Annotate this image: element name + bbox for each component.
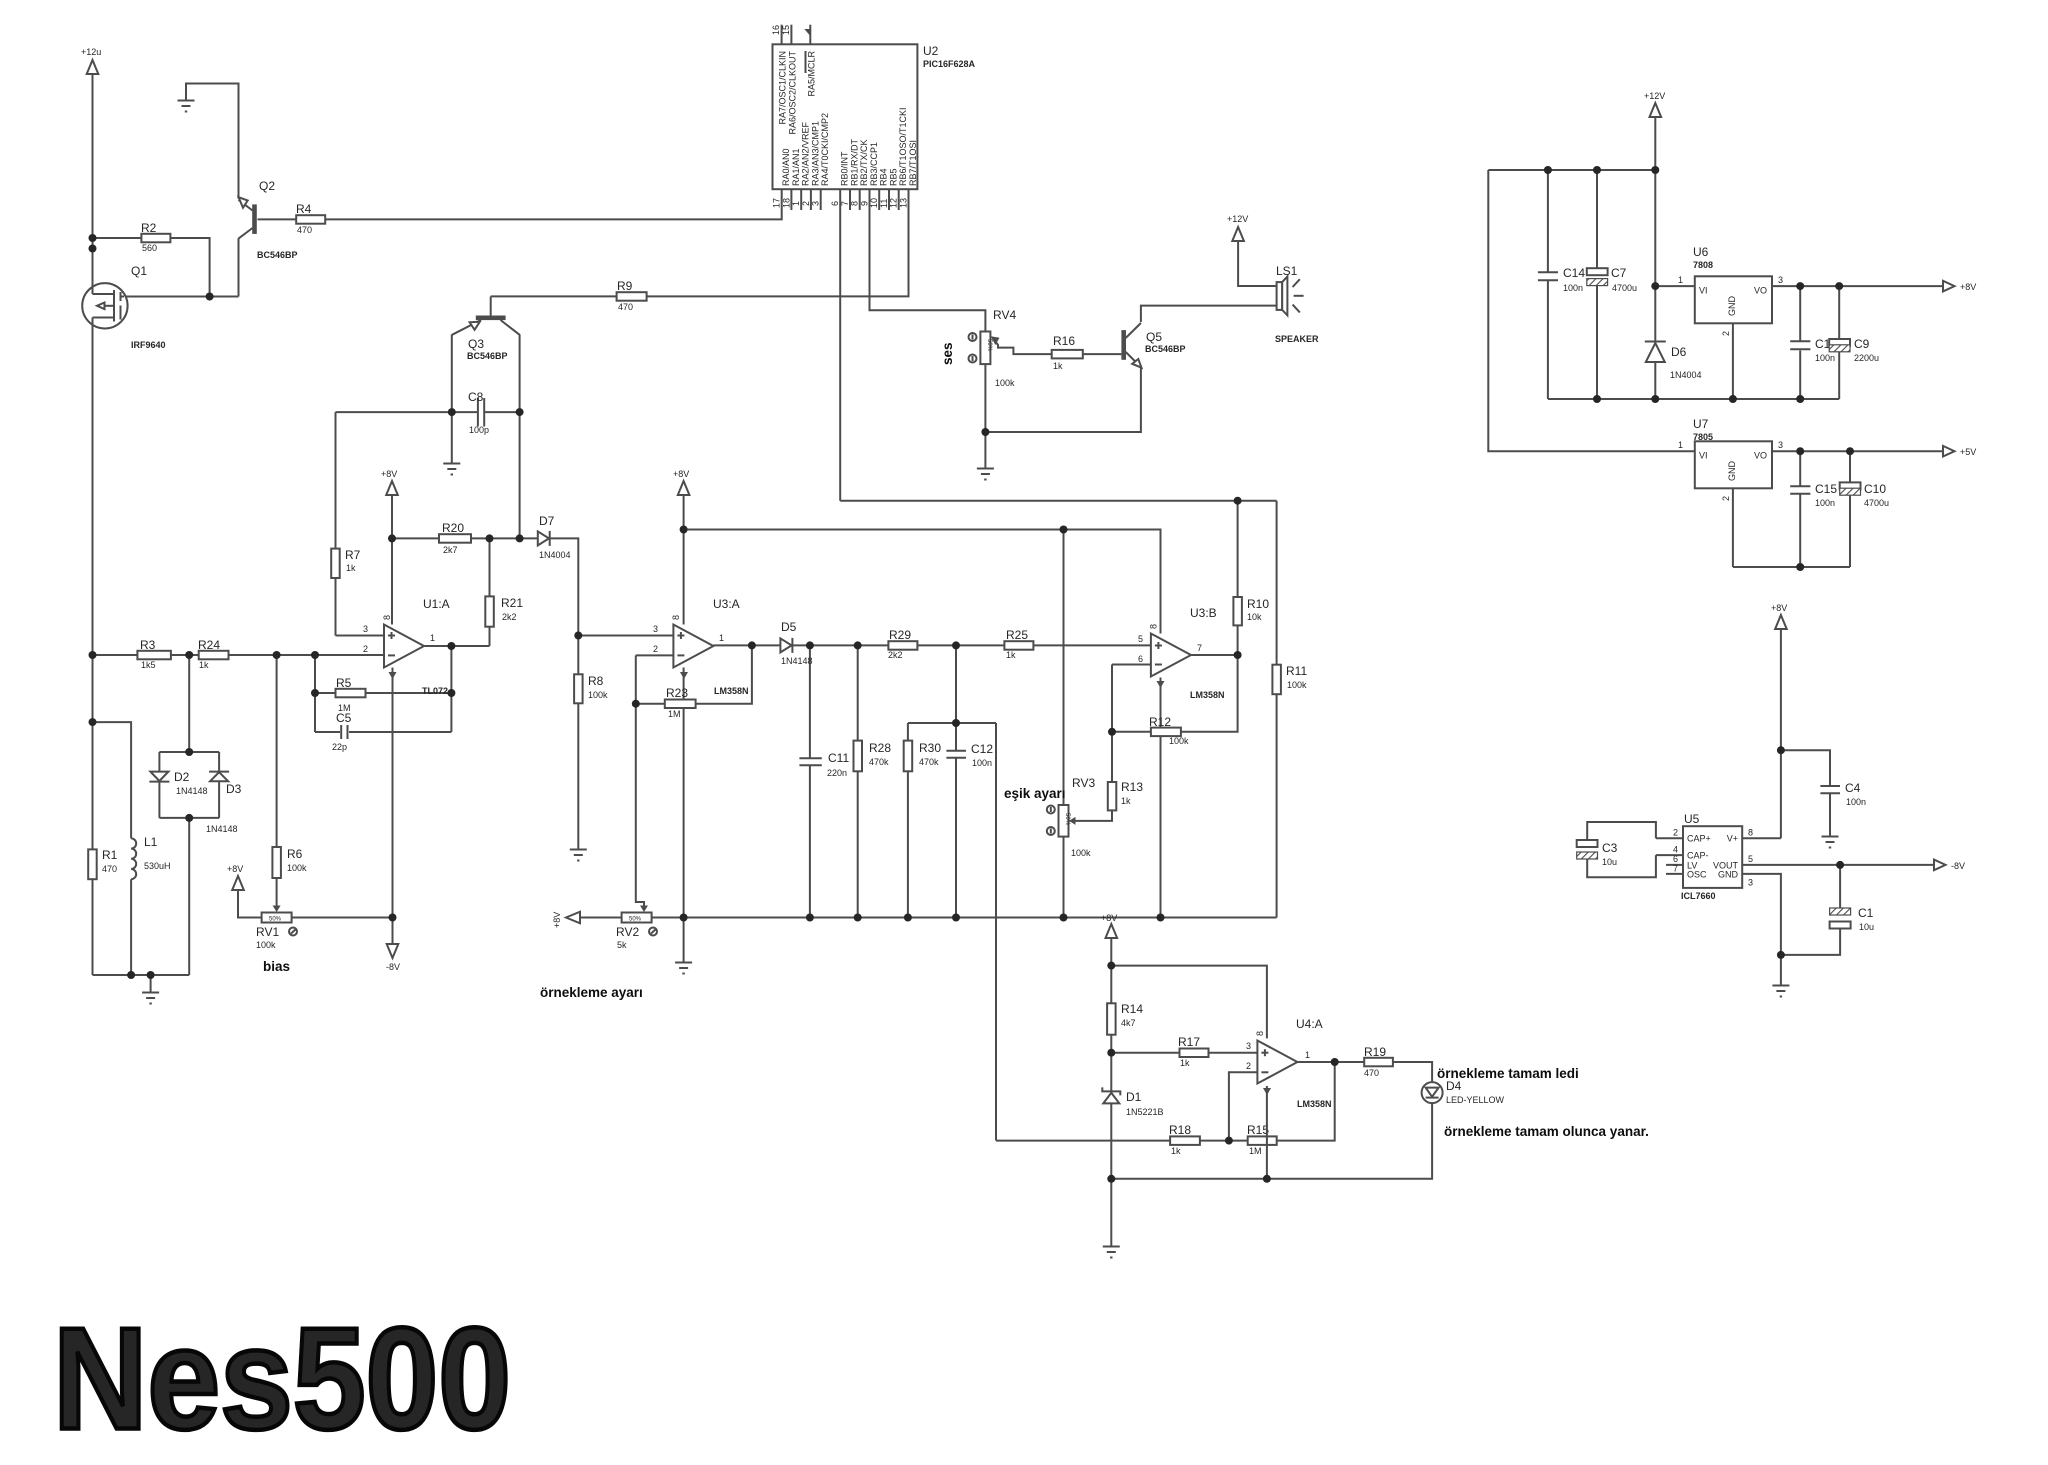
wire U7 pin3 output [1772,450,1943,452]
svg-text:RV1: RV1 [256,925,279,939]
resistor R11 100k [1272,665,1281,695]
transistor Q2 BC546BP [252,204,257,234]
svg-text:50%: 50% [629,917,642,923]
svg-text:R14: R14 [1121,1002,1143,1016]
svg-text:+8V: +8V [673,469,689,479]
wire D2 D3 loop bottom [159,817,219,819]
svg-text:örnekleme ayarı: örnekleme ayarı [540,985,643,1000]
pin 16 stub [781,25,783,45]
diode D6 1N4004 [1645,341,1666,343]
svg-text:2: 2 [1721,331,1731,336]
wire -8V drop [392,918,394,945]
wire C12 vertical [955,723,957,750]
regulator U6 7808 [1695,276,1772,323]
resistor R20 2k7 [439,534,471,543]
svg-text:100k: 100k [1169,736,1189,746]
svg-text:R2: R2 [141,221,157,235]
wire C1 vertical [1839,865,1841,908]
wire U7 pin2 [1732,488,1734,567]
svg-text:R28: R28 [869,741,891,755]
transistor Q5 BC546BP [1121,330,1126,360]
svg-text:R25: R25 [1006,628,1028,642]
svg-text:R13: R13 [1121,780,1143,794]
svg-text:1N4004: 1N4004 [1670,370,1702,380]
diode D2 1N4148 [150,772,168,781]
svg-text:D5: D5 [781,620,797,634]
wire R7 vertical [335,412,337,635]
svg-text:LS1: LS1 [1276,264,1298,278]
svg-text:2k2: 2k2 [888,650,903,660]
svg-text:U2: U2 [923,44,939,58]
svg-text:BC546BP: BC546BP [467,351,508,361]
wire +12V feed U6 [1654,117,1656,170]
wire C13 vertical [1799,286,1801,340]
svg-text:R29: R29 [889,628,911,642]
svg-text:7: 7 [1197,643,1202,653]
svg-text:D3: D3 [226,782,242,796]
svg-text:470: 470 [618,302,633,312]
diode D5 1N4148 [780,638,791,652]
resistor R16 1k [1052,350,1083,359]
svg-text:10u: 10u [1859,922,1874,932]
svg-text:8: 8 [382,615,392,620]
svg-text:2k7: 2k7 [443,545,458,555]
svg-text:3: 3 [1778,440,1783,450]
capacitor C9 2200u electrolytic [1829,339,1850,346]
svg-text:U3:B: U3:B [1190,606,1217,620]
svg-text:RA6/OSC2/CLKOUT: RA6/OSC2/CLKOUT [788,51,798,135]
op-amp U4:A LM358N [1257,1041,1297,1084]
svg-text:U3:A: U3:A [713,597,740,611]
svg-text:1: 1 [1305,1050,1310,1060]
svg-text:+8V: +8V [1771,603,1787,613]
svg-text:470k: 470k [869,757,889,767]
pot RV3 100k esikayari [1059,805,1069,837]
wire C10 vertical [1849,451,1851,482]
svg-text:8: 8 [850,201,860,206]
wire RV3 wiper to R13 [1072,810,1112,821]
ground under Q3 C8 [443,464,460,475]
svg-text:RV4: RV4 [993,308,1016,322]
svg-text:1k: 1k [1006,650,1016,660]
wire +12V to speaker [1238,241,1277,286]
wire U5 pin7 OSC stub [1666,873,1683,875]
svg-text:5k: 5k [617,940,627,950]
svg-text:5: 5 [1138,634,1143,644]
resistor R23 1M [665,700,696,709]
svg-text:3: 3 [1748,878,1753,888]
svg-text:+5V: +5V [1960,447,1976,457]
wire RB0 net run [840,500,1276,502]
svg-text:örnekleme tamam ledi: örnekleme tamam ledi [1437,1066,1579,1081]
resistor R3 1k5 [137,651,171,660]
svg-text:OSC: OSC [1687,870,1707,880]
svg-text:LED-YELLOW: LED-YELLOW [1446,1095,1505,1105]
wire RV1 right to -8V node [292,917,393,919]
wire RV3 bottom [1063,837,1065,918]
resistor R2 560 [141,234,170,243]
svg-text:CAP+: CAP+ [1687,834,1711,844]
svg-text:2: 2 [1673,828,1678,838]
wire Q3 base [490,296,492,315]
svg-text:+12V: +12V [1644,91,1665,101]
resistor R7 1k [331,549,340,578]
svg-text:VO: VO [1754,451,1767,461]
svg-text:U1:A: U1:A [423,597,450,611]
svg-text:IRF9640: IRF9640 [131,340,166,350]
svg-text:1k: 1k [1053,361,1063,371]
ground under D1 [1103,1247,1120,1258]
wire long drop to U4 section [995,723,997,1141]
svg-text:RA0/AN0: RA0/AN0 [781,148,791,186]
capacitor C13 100n [1790,340,1810,342]
ground under RV4 [977,469,994,480]
wire U4 output [1297,1062,1432,1082]
svg-text:+8V: +8V [1101,913,1117,923]
svg-text:RB3/CCP1: RB3/CCP1 [869,142,879,186]
svg-text:6: 6 [1138,654,1143,664]
wire U4 pin2 [1229,1072,1258,1140]
svg-text:50%: 50% [269,917,282,923]
wire R28 vertical [857,645,859,917]
transistor Q1 IRF9640 MOSFET [82,283,127,328]
svg-text:1N4004: 1N4004 [539,550,571,560]
svg-text:1k5: 1k5 [141,660,156,670]
ground under U5 [1772,986,1789,997]
wire C9 vertical [1838,286,1840,339]
wire R12 run [1112,655,1238,732]
wire R9 run to U2 pin13 [491,189,909,296]
svg-text:2: 2 [1246,1061,1251,1071]
svg-text:RA5/MCLR: RA5/MCLR [807,51,817,97]
wire U3A output D5 R29 R25 run [713,644,1151,646]
svg-text:10k: 10k [1247,612,1262,622]
svg-text:100k: 100k [588,690,608,700]
svg-text:VI: VI [1699,286,1708,296]
capacitor C8 100p [477,398,479,427]
wire R30 C12 top run [908,722,996,724]
svg-text:100k: 100k [287,863,307,873]
svg-text:1: 1 [1678,275,1683,285]
wire R5 run [315,692,451,694]
svg-text:8: 8 [1255,1031,1265,1036]
bottom pin stubs 17 18 1 2 3 [790,189,792,210]
svg-text:1k: 1k [199,660,209,670]
capacitor C4 100n [1820,785,1840,787]
wire U2 pin9 to RV4 [870,189,986,331]
wire U3B V- [1160,678,1162,918]
regulator U7 7805 [1695,441,1772,488]
svg-text:-8V: -8V [1951,861,1965,871]
svg-text:11: 11 [879,199,889,208]
wire U3B output [1191,654,1238,656]
svg-text:6: 6 [830,201,840,206]
svg-text:RV2: RV2 [616,925,639,939]
capacitor C3 10u electrolytic [1577,840,1598,847]
svg-text:RA1/AN1: RA1/AN1 [791,148,801,186]
svg-text:100p: 100p [469,425,489,435]
svg-text:R30: R30 [919,741,941,755]
resistor R30 470k [904,741,913,772]
wire U6 pin1 [1655,285,1695,287]
svg-text:U7: U7 [1693,417,1709,431]
svg-text:bias: bias [263,959,290,974]
wire U3A V+ [683,494,685,625]
bottom pin stubs 7 8 10 11 12 [849,189,851,210]
wire C3 loop [1587,822,1656,840]
svg-text:LM358N: LM358N [1297,1099,1332,1109]
svg-text:50%: 50% [1064,813,1070,826]
svg-text:BC546BP: BC546BP [257,250,298,260]
svg-text:4: 4 [1673,844,1678,854]
svg-text:1N5221B: 1N5221B [1126,1107,1164,1117]
svg-text:TL072: TL072 [422,686,448,696]
svg-text:1: 1 [719,633,724,643]
svg-text:RA2/AN2/VREF: RA2/AN2/VREF [801,121,811,186]
svg-text:LM358N: LM358N [714,686,749,696]
resistor R19 470 [1364,1058,1393,1067]
wire L1 branch [93,722,132,838]
svg-text:RB1/RX/DT: RB1/RX/DT [849,138,859,186]
svg-text:RB4: RB4 [879,168,889,186]
power -8V U1 [387,944,399,958]
wire +8V U4 vertical [1110,937,1112,1091]
svg-text:470: 470 [1364,1068,1379,1078]
power +12u top-left [87,60,99,74]
wire C11 vertical [809,645,811,757]
wire U5 pin3 GND [1742,874,1781,985]
svg-text:RB2/TX/CK: RB2/TX/CK [859,139,869,186]
wire L1 bottom [130,879,132,975]
wire U1 V- [392,668,394,918]
svg-text:470k: 470k [919,757,939,767]
svg-text:R8: R8 [588,674,604,688]
svg-text:1k: 1k [346,563,356,573]
svg-text:R18: R18 [1169,1123,1191,1137]
svg-text:-8V: -8V [386,962,400,972]
wire Q1 gate to Q2 collector node [124,296,239,298]
svg-text:D1: D1 [1126,1090,1142,1104]
svg-text:7: 7 [840,201,850,206]
wire U5 pin6 LV stub [1666,864,1683,866]
svg-text:100k: 100k [1287,680,1307,690]
svg-text:U5: U5 [1684,812,1700,826]
svg-text:+8V: +8V [1960,282,1976,292]
svg-text:R3: R3 [140,638,156,652]
resistor R5 1M [336,689,366,698]
svg-text:R23: R23 [666,686,688,700]
svg-text:4k7: 4k7 [1121,1018,1136,1028]
wire R4 run to U2 pin 17 [258,189,782,219]
svg-text:100n: 100n [1815,498,1835,508]
svg-text:3: 3 [363,624,368,634]
chip U2 body [773,44,918,189]
wire C14 vertical [1547,170,1549,272]
ground under R8 [570,850,587,861]
wire left vertical to U7 [1488,170,1695,451]
svg-text:R20: R20 [442,521,464,535]
output arrow +5V [1943,446,1955,457]
output arrow +8V [1943,281,1955,292]
svg-text:1M: 1M [668,709,681,719]
wire C5 run [315,731,340,733]
svg-text:+12u: +12u [81,47,101,57]
svg-text:GND: GND [1727,296,1737,317]
svg-text:Q5: Q5 [1146,330,1162,344]
wire U3A pin2 [636,654,674,656]
svg-text:+8V: +8V [381,469,397,479]
wire top supply run [1488,169,1655,171]
capacitor C14 100n [1538,271,1558,273]
svg-text:V+: V+ [1727,834,1738,844]
svg-text:R19: R19 [1364,1045,1386,1059]
svg-text:RB7/T1OSI: RB7/T1OSI [908,140,918,186]
resistor R6 100k [272,847,281,878]
svg-text:D7: D7 [539,514,555,528]
wire RV4 wiper [993,338,1052,355]
pot RV2 5k orneklemeayari [622,913,652,923]
power +8V U4 [1106,924,1118,938]
svg-text:7805: 7805 [1693,432,1713,442]
wire U3B pin6 [1112,664,1151,666]
wire R6 vertical [276,655,278,907]
resistor R29 2k2 [888,641,917,650]
svg-text:RA3/AN3/CMP1: RA3/AN3/CMP1 [810,121,820,186]
wire pin6 vertical [1111,665,1113,732]
svg-text:örnekleme tamam olunca yanar.: örnekleme tamam olunca yanar. [1444,1124,1649,1139]
wire U5 pin8 [1742,837,1781,839]
svg-text:Q1: Q1 [131,264,147,278]
svg-text:8: 8 [1149,624,1159,629]
ground top-left [178,101,195,112]
svg-text:Q3: Q3 [468,337,484,351]
svg-text:1N4148: 1N4148 [206,824,238,834]
svg-text:100n: 100n [1563,283,1583,293]
wire C8 run [336,411,478,413]
svg-text:L1: L1 [144,835,158,849]
svg-text:U4:A: U4:A [1296,1017,1323,1031]
pin 4 MCLR stub [809,25,811,45]
power +12V speaker [1232,227,1244,241]
svg-text:3: 3 [1778,275,1783,285]
svg-text:7808: 7808 [1693,260,1713,270]
svg-text:C4: C4 [1845,781,1861,795]
wire U3A pin3 [578,635,673,637]
svg-text:16: 16 [771,25,781,35]
svg-text:RB6/T1OSO/T1CKI: RB6/T1OSO/T1CKI [898,107,908,186]
svg-text:8: 8 [671,615,681,620]
power +8V U5 [1775,615,1787,629]
capacitor C10 4700u electrolytic [1840,482,1861,489]
wire ground stem under rail [683,918,685,963]
svg-text:2: 2 [653,644,658,654]
resistor R9 470 [617,292,647,301]
wire R8 vertical [577,636,579,850]
wire D1 anode to ground [1110,1103,1112,1246]
svg-text:220n: 220n [827,768,847,778]
diode D3 1N4148 [209,771,229,773]
resistor R15 1M [1248,1136,1277,1145]
wire D2 D3 to bottom rail [188,818,190,975]
svg-text:3: 3 [653,624,658,634]
svg-text:5: 5 [1748,854,1753,864]
wire R21 vertical [489,538,491,646]
wire R23 run [636,645,752,703]
svg-text:1k: 1k [1121,796,1131,806]
charge pump U5 ICL7660 [1683,826,1742,888]
svg-text:100k: 100k [1071,848,1091,858]
svg-text:LM358N: LM358N [1190,690,1225,700]
svg-text:560: 560 [142,243,157,253]
wire R17 run [1111,1052,1257,1054]
resistor R25 1k [1004,641,1033,650]
wire R18 run [996,1140,1229,1142]
wire D6 vertical [1654,170,1656,342]
svg-text:10: 10 [869,198,879,208]
resistor R17 1k [1180,1049,1209,1058]
svg-text:2: 2 [363,644,368,654]
power +8V RV1 [232,876,244,890]
wire Q2 emitter to ground [186,84,239,199]
svg-text:C15: C15 [1815,482,1837,496]
svg-text:R24: R24 [198,638,220,652]
resistor R21 2k2 [485,596,494,626]
wire U1 V+ [391,494,393,625]
wire pin2 to RV2 wiper [636,655,644,908]
wire Q3 collector vertical [519,334,521,538]
svg-text:470: 470 [297,225,312,235]
resistor R12 100k [1151,728,1181,737]
svg-text:1k: 1k [1171,1146,1181,1156]
svg-text:C3: C3 [1602,841,1618,855]
svg-text:10u: 10u [1602,857,1617,867]
svg-text:R21: R21 [501,596,523,610]
capacitor C12 100n [946,750,966,752]
svg-text:GND: GND [1718,870,1739,880]
resistor R24 1k [199,651,229,660]
svg-text:VO: VO [1754,286,1767,296]
svg-text:R4: R4 [296,202,312,216]
resistor R28 470k [854,741,863,772]
svg-text:SPEAKER: SPEAKER [1275,334,1319,344]
svg-text:C1: C1 [1858,906,1874,920]
wire D2 D3 loop top [159,751,219,753]
wire U6 pin3 output [1772,285,1943,287]
wire C7 vertical [1596,170,1598,268]
capacitor C1 10u electrolytic [1830,908,1851,915]
svg-text:100k: 100k [256,940,276,950]
wire RV3 top [1063,530,1065,806]
svg-text:100n: 100n [1815,353,1835,363]
capacitor C15 100n [1790,485,1810,487]
svg-text:BC546BP: BC546BP [1145,344,1186,354]
svg-text:C8: C8 [468,390,484,404]
svg-text:2: 2 [801,201,811,206]
svg-text:2k2: 2k2 [502,612,517,622]
wire D2 D3 branch [188,655,190,752]
resistor R13 1k [1108,782,1117,810]
svg-text:C9: C9 [1854,337,1870,351]
wire +12u rail vertical [92,75,94,975]
power +8V U1 [386,481,398,495]
resistor R10 10k [1233,597,1242,625]
diode D7 1N4004 [538,531,549,545]
ground bottom-left [142,993,159,1004]
diode D1 zener 1N5221B [1102,1087,1120,1095]
resistor R14 4k7 [1107,1003,1116,1034]
svg-text:4700u: 4700u [1612,283,1637,293]
wire R15 run and U4 V- crossing over R15 [1229,1140,1248,1142]
